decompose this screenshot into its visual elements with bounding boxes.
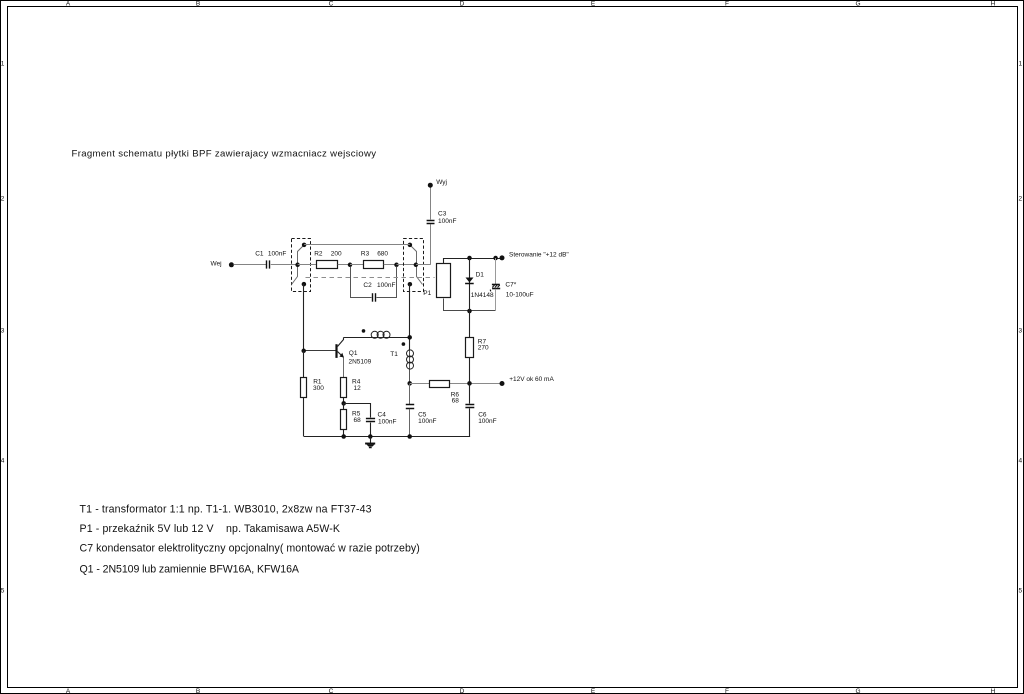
wire node to R3 [350, 264, 363, 266]
wire coil top to Sterowanie [444, 259, 503, 264]
capacitor C1 100nF [255, 250, 286, 268]
svg-text:Q1 - 2N5109 lub zamiennie BFW1: Q1 - 2N5109 lub zamiennie BFW16A, KFW16A [80, 563, 300, 575]
svg-text:A: A [66, 1, 71, 8]
resistor R1 300 [301, 351, 325, 437]
capacitor C6 100nF [465, 383, 496, 436]
svg-text:680: 680 [377, 250, 388, 257]
svg-text:3: 3 [1, 328, 5, 335]
svg-text:200: 200 [331, 250, 342, 257]
svg-text:C1: C1 [255, 250, 264, 257]
svg-text:4: 4 [1, 458, 5, 465]
svg-text:2: 2 [1, 196, 5, 203]
relay coil P1 [437, 264, 451, 298]
resistor R2 200 [314, 250, 342, 268]
svg-text:T1: T1 [390, 351, 398, 358]
grid column letters top [66, 1, 996, 8]
svg-text:D: D [460, 1, 465, 8]
svg-text:100nF: 100nF [438, 218, 456, 225]
ground symbol [365, 437, 375, 448]
svg-text:Q1: Q1 [349, 350, 358, 357]
contact dot bottom relay 1 [302, 282, 307, 287]
svg-text:300: 300 [313, 385, 324, 392]
svg-text:E: E [591, 1, 596, 8]
node R4/R5/C4 junction [341, 401, 346, 406]
capacitor C4 100nF [344, 404, 397, 437]
node R3/C2 junction [394, 263, 399, 268]
svg-text:R3: R3 [361, 250, 370, 257]
diode D1 1N4148 [465, 258, 494, 311]
resistor R7 270 [466, 311, 490, 383]
node Sterowanie terminal [500, 252, 570, 261]
wire +12V feed line [450, 383, 502, 385]
wire node to relay 2 [397, 264, 416, 266]
armature wire relay 2 [410, 245, 423, 285]
node C7 top [493, 256, 498, 261]
capacitor C3 100nF [427, 187, 457, 265]
node D1 top [467, 256, 472, 261]
svg-text:1N4148: 1N4148 [471, 292, 494, 299]
svg-text:C2: C2 [363, 282, 372, 289]
capacitor C5 100nF [406, 383, 437, 436]
svg-text:D1: D1 [476, 271, 485, 278]
svg-text:C7 kondensator elektrolityczny: C7 kondensator elektrolityczny opcjonaln… [80, 543, 420, 555]
svg-text:Sterowanie "+12 dB": Sterowanie "+12 dB" [509, 252, 569, 259]
mechanical link dashed line to coil [306, 277, 435, 279]
node T1 secondary bottom / R6 / C5 [407, 381, 412, 386]
svg-text:68: 68 [354, 417, 362, 424]
svg-text:H: H [991, 1, 996, 8]
wire relay 2 bottom contact down to T1 [409, 284, 411, 350]
svg-text:B: B [196, 1, 200, 8]
svg-text:12: 12 [354, 385, 362, 392]
svg-text:2: 2 [1018, 196, 1022, 203]
svg-text:B: B [196, 688, 200, 694]
wire Wej to C1 [234, 264, 267, 266]
node Wej input terminal [211, 260, 234, 267]
svg-text:C3: C3 [438, 211, 447, 218]
wire coil bottom rail [444, 299, 496, 311]
resistor R4 12 [341, 378, 362, 404]
transistor Q1 2N5109 [337, 338, 372, 378]
node Wyj output terminal [428, 179, 447, 188]
contact dot top relay 1 [302, 243, 307, 248]
grid row numbers right [1018, 61, 1022, 595]
node D1 bottom [467, 309, 472, 314]
svg-text:F: F [725, 688, 729, 694]
wire main line through box to R2 [298, 264, 317, 266]
svg-text:4: 4 [1018, 458, 1022, 465]
node R2/R3/C2 junction [348, 263, 353, 268]
svg-text:100nF: 100nF [377, 282, 395, 289]
node rail C5 [407, 434, 412, 439]
svg-text:100nF: 100nF [378, 419, 396, 426]
wire relay 2 common to C3 branch [416, 264, 431, 266]
wire relay 1 bottom contact to Q1 base node [303, 284, 305, 351]
transformer T1 secondary winding [390, 350, 413, 384]
svg-text:E: E [591, 688, 596, 694]
svg-text:Wej: Wej [211, 260, 222, 267]
node +12V terminal [500, 376, 555, 386]
phase dot secondary [402, 342, 406, 346]
svg-text:C: C [329, 688, 334, 694]
svg-text:5: 5 [1, 588, 5, 595]
svg-text:2N5109: 2N5109 [349, 358, 372, 365]
svg-text:100nF: 100nF [268, 250, 286, 257]
wire Q1 base [304, 350, 336, 352]
armature wire relay 1 [292, 245, 305, 285]
resistor R3 680 [361, 250, 389, 268]
svg-text:A: A [66, 688, 71, 694]
svg-text:P1 - przekaźnik 5V lub 12 V: P1 - przekaźnik 5V lub 12 V np. Takamisa… [80, 523, 341, 535]
relay contact box K1b (dashed) [404, 239, 424, 292]
ground rail bottom [304, 436, 470, 438]
svg-text:+12V ok 60 mA: +12V ok 60 mA [509, 376, 554, 383]
contact dot bottom relay 2 [408, 282, 413, 287]
svg-text:F: F [725, 1, 729, 8]
svg-text:G: G [855, 1, 860, 8]
svg-text:68: 68 [452, 398, 460, 405]
node rail C4/ground [368, 434, 373, 439]
svg-text:P1: P1 [423, 290, 431, 297]
resistor R6 68 [410, 381, 459, 405]
resistor R5 68 [341, 403, 362, 436]
grid column letters bottom [66, 688, 996, 694]
wire C1 to relay contact [271, 264, 298, 266]
svg-text:G: G [855, 688, 860, 694]
node common relay 2 [414, 263, 419, 268]
svg-text:H: H [991, 688, 996, 694]
svg-text:T1 - transformator 1:1 np. T1-: T1 - transformator 1:1 np. T1-1. WB3010,… [80, 504, 372, 516]
node R7/C6/+12V junction [467, 381, 472, 386]
svg-text:C7*: C7* [505, 281, 516, 288]
relay contact box K1a (dashed) [292, 239, 311, 292]
svg-text:10-100uF: 10-100uF [506, 292, 534, 299]
svg-text:D: D [460, 688, 465, 694]
svg-text:100nF: 100nF [418, 418, 436, 425]
svg-text:5: 5 [1018, 588, 1022, 595]
svg-text:1: 1 [1, 61, 5, 68]
node rail R5 [341, 434, 346, 439]
svg-text:270: 270 [478, 345, 489, 352]
contact dot top relay 2 [408, 243, 413, 248]
capacitor C2 100nF branch [351, 267, 397, 302]
phase dot primary [362, 329, 366, 333]
node Q1 base / R1 junction [301, 349, 306, 354]
svg-text:Fragment schematu płytki BPF z: Fragment schematu płytki BPF zawierajacy… [72, 148, 377, 159]
transformer T1 primary winding [344, 331, 410, 338]
svg-text:1: 1 [1018, 61, 1022, 68]
capacitor C7 electrolytic 10-100uF [490, 258, 533, 311]
svg-text:100nF: 100nF [478, 418, 496, 425]
svg-text:3: 3 [1018, 328, 1022, 335]
bypass wire between relay top contacts [304, 244, 410, 246]
wire R2 to node [338, 264, 350, 266]
node common relay 1 [295, 263, 300, 268]
svg-text:C: C [329, 1, 334, 8]
grid row numbers left [1, 61, 5, 595]
wire R3 to node [384, 264, 397, 266]
node T1 primary/secondary top junction [407, 335, 412, 340]
svg-text:Wyj: Wyj [436, 179, 447, 186]
svg-text:R2: R2 [314, 250, 323, 257]
